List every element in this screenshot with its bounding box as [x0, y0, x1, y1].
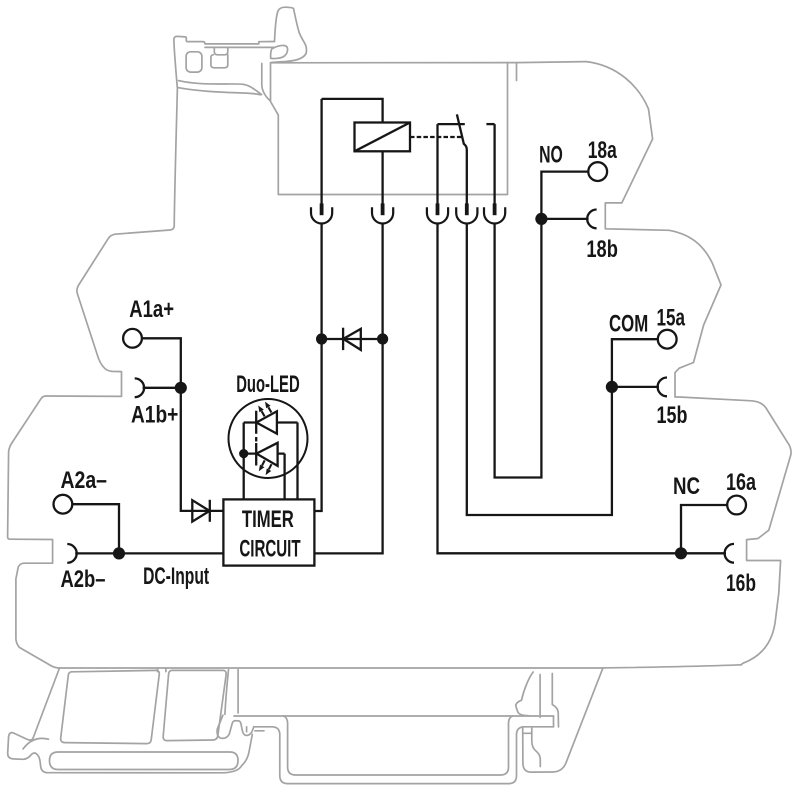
svg-text:NO: NO — [539, 142, 563, 169]
svg-text:16a: 16a — [726, 469, 756, 496]
svg-text:16b: 16b — [726, 570, 756, 597]
svg-text:DC-Input: DC-Input — [143, 563, 209, 590]
svg-text:TIMER: TIMER — [242, 506, 294, 533]
svg-text:CIRCUIT: CIRCUIT — [239, 535, 300, 562]
svg-text:A2b–: A2b– — [61, 566, 106, 593]
svg-text:NC: NC — [673, 473, 700, 500]
svg-text:COM: COM — [609, 311, 648, 338]
svg-text:18a: 18a — [588, 137, 618, 164]
svg-text:A1b+: A1b+ — [131, 402, 178, 429]
svg-text:Duo-LED: Duo-LED — [236, 371, 300, 398]
svg-text:18b: 18b — [586, 236, 618, 263]
svg-text:A1a+: A1a+ — [129, 296, 174, 323]
svg-text:15a: 15a — [657, 305, 686, 332]
svg-text:A2a–: A2a– — [61, 467, 108, 494]
svg-text:15b: 15b — [657, 402, 688, 429]
